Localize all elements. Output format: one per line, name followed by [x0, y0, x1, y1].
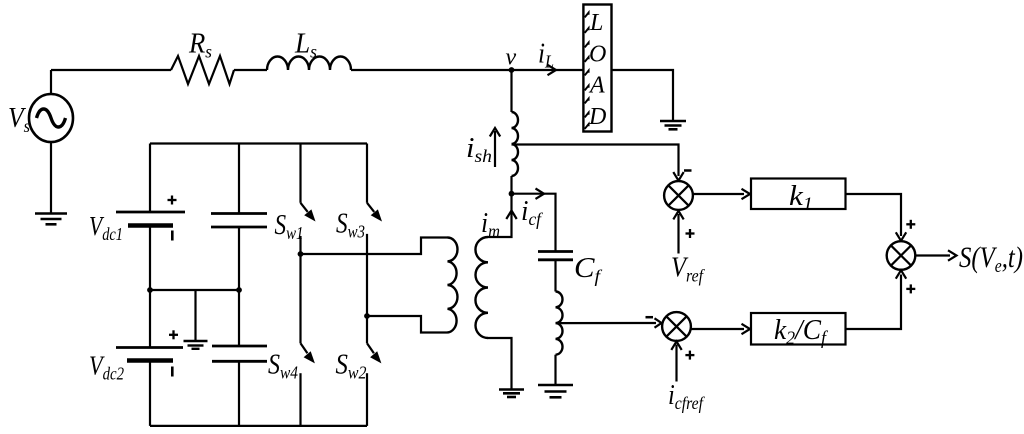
H-bridge top rail	[150, 142, 367, 144]
wire secondary bottom lead	[488, 338, 512, 389]
battery Vdc2	[116, 348, 183, 361]
arrow icfref into U2	[671, 341, 681, 381]
AC source Vs	[29, 94, 73, 142]
arrow iL on wire	[548, 65, 557, 75]
wire LOAD right to ground	[612, 70, 674, 121]
wire coil to ground	[554, 355, 556, 385]
wire k1 to summer U3	[846, 194, 902, 236]
wire left leg upper	[149, 144, 151, 213]
wire left leg lower	[149, 290, 151, 348]
capacitor C2	[212, 346, 267, 361]
capacitor C1	[211, 214, 267, 228]
summer U3 right	[887, 241, 916, 270]
wire tap to upper summer	[512, 145, 679, 177]
arrow ish	[490, 128, 500, 167]
wire tap to lower summer	[556, 322, 657, 324]
LOAD hatch marks	[585, 13, 589, 129]
ground mid bridge	[184, 341, 208, 349]
inductor ish coil	[512, 112, 519, 176]
node Sw1 out	[298, 251, 304, 257]
ground below secondary	[499, 390, 524, 398]
wire coil to node	[510, 176, 512, 194]
wire k2 to summer U3	[846, 275, 902, 330]
minus sign lower summer	[646, 316, 654, 319]
svg-text:D: D	[588, 104, 606, 130]
wire mid leg upper	[238, 144, 240, 214]
arrow into U3 top	[896, 232, 906, 241]
switch Sw4	[301, 343, 315, 426]
wire Sw3 to node	[366, 234, 368, 343]
node Sw3 out	[364, 313, 370, 319]
wire ground stem Vs	[50, 142, 52, 213]
svg-text:S(Ve,t): S(Ve,t)	[959, 241, 1023, 277]
transformer primary coil	[448, 238, 458, 333]
plus Vdc1	[168, 196, 177, 205]
arrow into k2	[742, 324, 751, 334]
wire left leg middle	[149, 226, 151, 291]
wire primary top lead	[301, 238, 448, 255]
plus sign U2	[685, 351, 694, 360]
inductor Ls	[267, 57, 351, 70]
switch Sw3	[367, 144, 382, 222]
wire ground stub mid	[194, 290, 196, 341]
plus sign U1	[686, 229, 695, 238]
summer U2 lower	[662, 312, 691, 341]
plus sign U3 top	[906, 220, 915, 229]
wire Ls to LOAD	[351, 69, 583, 71]
wire node v down	[510, 70, 512, 112]
switch Sw2	[367, 343, 381, 426]
wire mid leg bottom	[238, 361, 240, 426]
block k1	[751, 179, 846, 216]
node v	[509, 67, 515, 73]
svg-text:O: O	[589, 42, 606, 68]
node icf junction	[509, 191, 515, 197]
switch Sw1	[301, 144, 316, 222]
H-bridge bottom rail	[150, 425, 367, 427]
transformer secondary coil	[475, 237, 488, 338]
capacitor Cf	[538, 252, 573, 260]
wire mid leg middle	[238, 227, 240, 290]
arrow into U3 bottom	[896, 270, 906, 279]
resistor Rs	[171, 56, 234, 84]
wire Vs top to main line	[50, 70, 52, 94]
wire U1 to k1	[693, 193, 744, 195]
node left mid	[147, 287, 153, 293]
ground below Vs	[35, 214, 67, 225]
wire between Rs and Ls	[234, 69, 267, 71]
node mid rail right	[236, 287, 242, 293]
ground below Cf branch	[538, 385, 573, 397]
ground right of LOAD	[660, 121, 686, 129]
wire U2 to k2	[691, 328, 744, 330]
wire secondary top lead	[488, 194, 512, 237]
arrow into k1	[742, 189, 751, 199]
block k2/Cf	[751, 313, 846, 349]
arrow into lower summer left	[655, 318, 662, 327]
minus Vdc2	[171, 367, 174, 377]
svg-text:L: L	[589, 10, 603, 36]
arrow icf	[536, 189, 545, 199]
summer U1 upper	[664, 181, 693, 210]
plus Vdc2	[169, 330, 178, 339]
wire primary bottom lead	[367, 316, 448, 333]
arrow into upper summer top	[673, 172, 683, 181]
svg-text:k2/Cf: k2/Cf	[774, 314, 829, 349]
wire Cf to coil	[554, 260, 556, 292]
minus sign upper summer	[684, 169, 692, 172]
arrow output S	[915, 250, 956, 260]
wire main line left segment	[51, 69, 171, 71]
plus sign U3 bottom	[906, 284, 915, 293]
inductor in Cf branch	[556, 292, 563, 355]
arrow im	[506, 211, 516, 220]
wire left leg bottom	[149, 361, 151, 426]
wire node to Cf branch	[512, 194, 556, 251]
arrow Vref into summer U1	[673, 211, 683, 254]
svg-text:A: A	[588, 73, 605, 99]
wire Sw1 to node	[299, 236, 301, 343]
wire mid leg lower	[238, 290, 240, 346]
battery Vdc1	[116, 212, 185, 226]
LOAD box	[583, 5, 611, 132]
minus Vdc1	[171, 231, 174, 241]
wire mid rail	[150, 289, 239, 291]
svg-text:v: v	[506, 45, 517, 71]
